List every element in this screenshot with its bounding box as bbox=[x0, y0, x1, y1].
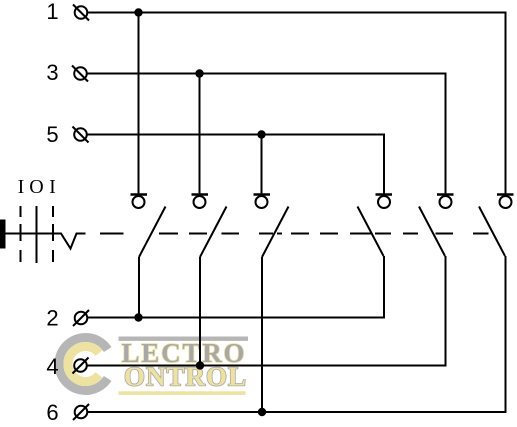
wire contact 1 to line 2 bbox=[138, 257, 140, 318]
wire line 4 (from contact 5) bbox=[87, 256, 446, 366]
label I O I bbox=[18, 176, 56, 198]
svg-text:3: 3 bbox=[46, 60, 58, 85]
svg-text:I: I bbox=[49, 176, 56, 198]
wire line 2 (from contact 4) bbox=[88, 256, 385, 318]
terminal 4 bbox=[73, 358, 89, 374]
terminal 5 bbox=[73, 127, 89, 143]
contact S3 bbox=[254, 195, 289, 258]
position line O middle (solid) bbox=[36, 206, 38, 263]
logo gray bar above LECTRO bbox=[119, 337, 249, 341]
terminal 3 bbox=[72, 66, 88, 82]
wire J5 drop to contact 3 bbox=[261, 135, 263, 195]
wire line 3 (to contact 5) bbox=[87, 74, 446, 195]
junction J2 bbox=[134, 313, 142, 321]
wire line 5 (to contact 4) bbox=[87, 135, 384, 195]
mechanical linkage dashed line bbox=[100, 233, 489, 235]
wire J3 drop to contact 2 bbox=[199, 74, 201, 195]
svg-text:1: 1 bbox=[46, 0, 58, 24]
contact S2 bbox=[192, 195, 227, 258]
contact S1 bbox=[131, 195, 166, 258]
contact S5 bbox=[419, 195, 454, 257]
wire contact 3 to line 6 bbox=[261, 257, 263, 412]
wire contact 2 to line 4 bbox=[199, 257, 201, 366]
wire line 1 (to contact 6) bbox=[88, 13, 506, 195]
contact S4 bbox=[358, 195, 393, 257]
logo big C khaki ring bbox=[68, 347, 99, 382]
position line I left (dashed) bbox=[20, 206, 22, 263]
junction J3 bbox=[195, 69, 203, 77]
handle shaft with detent notch bbox=[6, 234, 86, 249]
junction J4 bbox=[196, 361, 204, 369]
switch handle bar bbox=[0, 220, 6, 249]
terminal 1 bbox=[73, 5, 89, 21]
junction J6 bbox=[258, 408, 266, 416]
wire line 6 (from contact 6) bbox=[88, 256, 506, 412]
svg-text:I: I bbox=[18, 176, 25, 198]
position line I right (dashed) bbox=[52, 206, 54, 263]
svg-text:O: O bbox=[29, 176, 43, 198]
terminal 2 bbox=[73, 310, 89, 326]
svg-text:5: 5 bbox=[46, 122, 58, 147]
logo big C gray ring bbox=[59, 338, 108, 391]
svg-text:2: 2 bbox=[46, 306, 58, 331]
contact S6 bbox=[479, 195, 514, 257]
terminal 6 bbox=[73, 404, 89, 420]
junction J1 bbox=[134, 8, 142, 16]
junction J5 bbox=[257, 130, 265, 138]
svg-text:4: 4 bbox=[46, 354, 58, 379]
logo khaki bar below ONTROL bbox=[119, 391, 246, 395]
wire J1 drop to contact 1 bbox=[138, 13, 140, 195]
svg-text:6: 6 bbox=[46, 400, 58, 425]
watermark logo ElectroControl bbox=[59, 337, 248, 395]
